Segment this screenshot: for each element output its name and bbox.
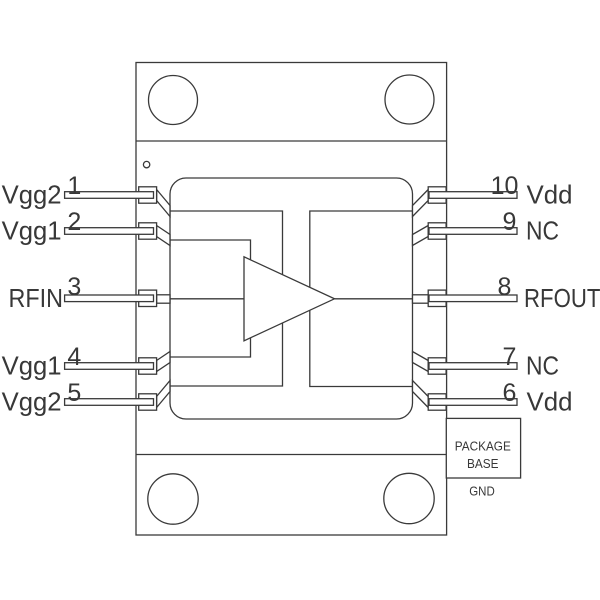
- svg-text:7: 7: [503, 343, 517, 371]
- svg-text:Vgg2: Vgg2: [2, 387, 62, 417]
- svg-text:10: 10: [491, 172, 519, 200]
- svg-text:RFIN: RFIN: [9, 283, 64, 313]
- svg-text:Vgg1: Vgg1: [2, 351, 62, 381]
- svg-text:3: 3: [67, 273, 81, 301]
- svg-text:Vgg1: Vgg1: [2, 216, 62, 246]
- svg-text:6: 6: [503, 379, 517, 407]
- svg-text:Vdd: Vdd: [527, 387, 573, 417]
- svg-text:NC: NC: [526, 216, 559, 246]
- svg-text:5: 5: [67, 379, 81, 407]
- svg-text:1: 1: [67, 172, 81, 200]
- svg-text:2: 2: [67, 208, 81, 236]
- svg-text:PACKAGE: PACKAGE: [455, 438, 511, 453]
- svg-text:9: 9: [503, 208, 517, 236]
- svg-text:NC: NC: [526, 351, 559, 381]
- svg-text:BASE: BASE: [467, 456, 499, 471]
- svg-text:Vgg2: Vgg2: [2, 180, 62, 210]
- svg-text:4: 4: [67, 343, 81, 371]
- svg-text:8: 8: [498, 273, 512, 301]
- svg-text:GND: GND: [469, 483, 495, 498]
- svg-text:Vdd: Vdd: [527, 180, 573, 210]
- svg-text:RFOUT: RFOUT: [524, 283, 600, 313]
